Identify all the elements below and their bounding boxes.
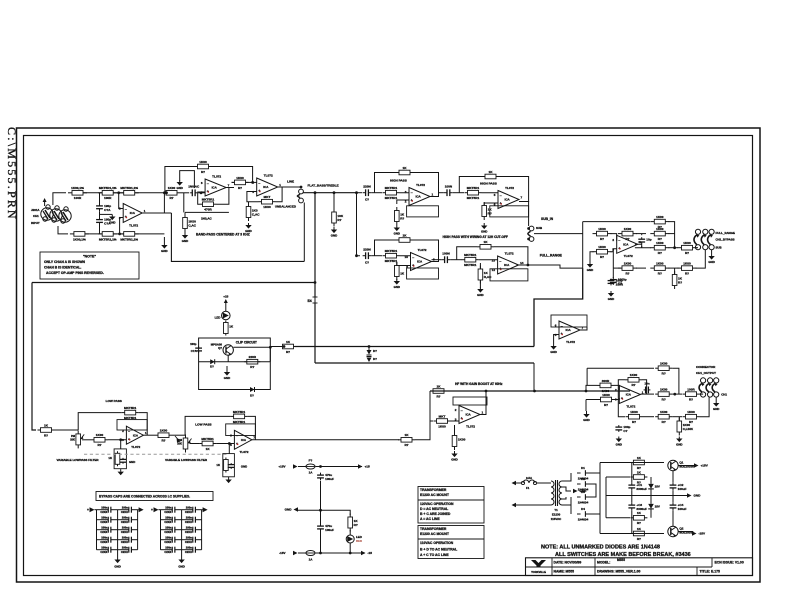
fb box U204A [407, 268, 439, 279]
svg-text:15V: 15V [655, 505, 660, 509]
svg-text:1N0,AC: 1N0,AC [201, 217, 213, 221]
ground input chain [161, 237, 167, 253]
wire z col2 [650, 493, 652, 501]
resistor R333 [655, 388, 672, 402]
svg-text:HIGH PASS: HIGH PASS [390, 178, 407, 182]
svg-text:ICA: ICA [130, 211, 136, 215]
svg-text:C2XX: C2XX [185, 550, 192, 554]
svg-text:1K00: 1K00 [598, 227, 606, 231]
svg-text:CH1: CH1 [721, 393, 727, 397]
svg-text:100n: 100n [186, 516, 192, 520]
junction bus 486 [485, 390, 488, 393]
wire mains3 [516, 504, 548, 506]
wire r236 dn [479, 281, 481, 289]
svg-text:300R: 300R [602, 379, 610, 383]
wire opamp2 lower fb [198, 192, 205, 204]
resistor R312 [91, 433, 108, 447]
wire row1 output right [519, 202, 529, 227]
fuse F2 [306, 459, 315, 475]
wire bridge join [589, 484, 596, 497]
label GND lp2 [241, 465, 247, 469]
wire bridge out- [589, 514, 600, 534]
ground buffer [550, 344, 556, 354]
svg-text:R?: R? [354, 523, 358, 527]
svg-text:CH1: CH1 [33, 214, 39, 218]
svg-text:+15: +15 [365, 465, 371, 469]
svg-text:C2XX: C2XX [185, 530, 192, 534]
capacitor C3 3300uF [628, 503, 647, 512]
wire opamp3 fb2 [276, 187, 283, 202]
note: bypass caps box [96, 492, 213, 501]
wire main bus y391 [430, 390, 630, 392]
wire lp1 fb out [139, 413, 148, 436]
transistor Q1 MJE15030 [668, 460, 694, 470]
wire lp1 fb [78, 413, 122, 430]
svg-text:100uF: 100uF [325, 477, 334, 481]
svg-text:ICA: ICA [504, 263, 510, 267]
svg-text:10p: 10p [646, 237, 651, 241]
svg-text:1K00: 1K00 [687, 410, 695, 414]
svg-text:1K00: 1K00 [656, 262, 664, 266]
svg-text:F?: F? [309, 459, 313, 463]
diode D304 [210, 359, 215, 368]
wire clip box drop [269, 347, 271, 361]
svg-text:C,AC: C,AC [188, 223, 196, 227]
wire row1 fb out [413, 173, 439, 197]
wire -15 rail [298, 552, 306, 554]
svg-text:TL072: TL072 [626, 404, 635, 408]
wire input top [53, 193, 66, 205]
svg-text:GND: GND [694, 494, 702, 498]
lp2 inner fb box [226, 424, 256, 436]
svg-text:C?A: C?A [104, 208, 111, 212]
wire opamp3 out LINE [278, 186, 301, 188]
svg-text:10K: 10K [70, 438, 75, 442]
wire c210-opamp2 [198, 192, 205, 194]
svg-text:C2XX: C2XX [164, 510, 171, 514]
wire row2 fb loop [375, 240, 397, 256]
op-amp U202A TL072 [252, 174, 281, 197]
wire top row a [83, 192, 103, 194]
wire q1 out [679, 465, 696, 467]
resistor R303 [280, 340, 296, 354]
resistor R206 bottom [120, 232, 139, 242]
svg-text:1N4004: 1N4004 [578, 500, 589, 504]
svg-text:220N: 220N [363, 185, 371, 189]
resistor R317 [398, 433, 415, 447]
wire r211-c210 [180, 192, 189, 194]
resistor R353 1K [630, 527, 647, 541]
printout filename C:\M555.PRN [5, 127, 19, 221]
wire lp2 fb out [248, 416, 256, 439]
svg-text:YORKVILLE: YORKVILLE [531, 570, 546, 574]
svg-text:GND: GND [109, 221, 115, 225]
svg-text:GND: GND [394, 285, 400, 289]
resistor R244 1K00 in [593, 245, 612, 259]
svg-text:100n: 100n [101, 516, 107, 520]
resistor R225 fb 1K [482, 170, 499, 179]
switch S2b [706, 378, 713, 397]
svg-text:TL072: TL072 [624, 254, 633, 258]
resistor R340 [348, 514, 358, 532]
svg-text:−: − [618, 239, 620, 243]
wire byp b [669, 267, 679, 269]
svg-text:C,LINK: C,LINK [683, 427, 694, 431]
resistor R248 [650, 262, 669, 276]
wire line down [303, 203, 305, 262]
resistor R243 1K00 [650, 227, 669, 241]
svg-text:−: − [461, 409, 463, 413]
svg-text:100n: 100n [186, 506, 192, 510]
fb box U203A [407, 206, 439, 217]
svg-text:GND: GND [285, 508, 293, 512]
wire byp to sw [696, 250, 706, 268]
svg-text:LOW PASS: LOW PASS [195, 422, 211, 426]
resistor R223 1K [395, 207, 405, 225]
wire c340 down [320, 481, 322, 510]
junction -15 [319, 552, 322, 555]
wire lp2 rc top [228, 444, 230, 454]
svg-text:ICA: ICA [626, 393, 632, 397]
svg-text:Q?: Q? [218, 346, 222, 350]
svg-text:100n: 100n [122, 536, 128, 540]
wire c240 up [641, 234, 643, 236]
wire subin right [534, 233, 560, 235]
page border outer [17, 128, 761, 582]
wire clip bus up right [534, 268, 583, 346]
svg-text:C2XX: C2XX [164, 530, 171, 534]
wire lp2 fb [185, 416, 231, 435]
junction lp1 in [119, 438, 122, 441]
capacitor C240 10p [638, 237, 651, 244]
transistor Q2 MJE15031 [668, 526, 694, 536]
label PM10K 1 [70, 434, 76, 442]
ground c302 [608, 291, 614, 301]
svg-text:GND: GND [676, 443, 682, 447]
wire c220-r [372, 192, 383, 194]
wire mains2 [537, 482, 549, 484]
svg-text:D3: D3 [581, 490, 585, 494]
switch S2a [699, 378, 706, 397]
wire c col3 [672, 471, 674, 483]
wire g out [641, 393, 655, 395]
wire pin3 riser [120, 218, 124, 234]
svg-text:−: − [621, 389, 623, 393]
wire mid rail [606, 495, 689, 497]
label MPSA06 [211, 342, 223, 350]
svg-text:HF WITH GAIN BOOST AT 60Hz: HF WITH GAIN BOOST AT 60Hz [455, 382, 503, 386]
wire q2 out [679, 531, 694, 533]
wire byp a [636, 267, 646, 269]
wire to sw mid [696, 247, 699, 249]
junction clip [283, 345, 286, 348]
resistor R335 [655, 362, 672, 376]
junction +15 cap [319, 465, 322, 468]
svg-text:SUB: SUB [536, 226, 542, 230]
svg-text:100uF: 100uF [678, 507, 687, 511]
svg-text:GND: GND [176, 186, 182, 190]
lp1 RC box [114, 449, 126, 469]
resistor R241 1K00 [593, 227, 612, 241]
resistor R338 [683, 410, 700, 424]
wire byp left link [613, 267, 620, 269]
svg-text:100n: 100n [186, 536, 192, 540]
wire g to sw [700, 393, 704, 395]
wire row2s2 fb loop [457, 247, 477, 260]
wire clip out pre [233, 346, 270, 348]
ground c331 [616, 437, 622, 447]
svg-text:D4: D4 [581, 507, 585, 511]
bandpass caption [196, 233, 250, 237]
wire LF tap vertical [314, 193, 316, 297]
svg-text:C,AC: C,AC [252, 212, 260, 216]
svg-text:R?: R? [662, 398, 666, 402]
wire sw2 gnd [715, 397, 717, 401]
svg-text:D?: D? [373, 357, 377, 361]
wire sum gnd lead [590, 252, 594, 262]
svg-text:15V: 15V [655, 485, 660, 489]
resistor R215 fb [259, 195, 276, 209]
svg-text:1K00: 1K00 [683, 262, 691, 266]
wire bot row a [85, 233, 103, 235]
svg-text:100uF: 100uF [325, 528, 334, 532]
resistor R316 shunt [224, 458, 229, 473]
svg-text:−: − [236, 434, 238, 438]
resistor R211 [163, 186, 180, 200]
wire bottom to gnd [135, 233, 165, 235]
label CONNECTOR [696, 365, 716, 369]
resistor R224 [465, 186, 482, 200]
junction top chain [117, 191, 120, 194]
svg-text:R?: R? [250, 365, 254, 369]
bypass capacitor bank 1 [87, 506, 144, 569]
svg-text:E1230: E1230 [552, 513, 561, 517]
ground r339 [676, 437, 682, 447]
wire sw gnd [711, 250, 713, 254]
svg-text:MODEL:: MODEL: [597, 561, 610, 565]
op-amp U203A [405, 183, 434, 206]
svg-text:C?: C? [365, 260, 369, 264]
ground switches 2 [713, 401, 719, 411]
svg-text:GND: GND [161, 249, 167, 253]
svg-text:C2XX: C2XX [164, 520, 171, 524]
wire E4 down [314, 303, 316, 363]
svg-text:D?: D? [250, 394, 254, 398]
op-amp U206A buffer [555, 321, 584, 344]
wire xlr bottom [58, 226, 68, 234]
svg-text:R?: R? [637, 537, 641, 541]
capacitor C4 100uF [670, 503, 687, 512]
wire r223 up [397, 200, 409, 204]
diode Z2 [648, 501, 660, 513]
wire bypass row [612, 249, 614, 268]
svg-text:+: + [87, 508, 89, 512]
svg-text:10n: 10n [644, 382, 649, 386]
svg-text:D2: D2 [581, 477, 585, 481]
wire g in2 [586, 399, 598, 401]
svg-text:M555: M555 [617, 558, 625, 562]
svg-text:MKT5R1,1%: MKT5R1,1% [99, 186, 117, 190]
wire z col [650, 477, 652, 481]
ground lf [451, 451, 457, 462]
svg-text:100n: 100n [122, 506, 128, 510]
wire sec bot [562, 505, 571, 514]
wire sec mid2 [562, 497, 566, 499]
resistor R205 bottom [98, 232, 117, 242]
wire c240 dn [641, 246, 643, 248]
wire q301 emitter [227, 355, 229, 362]
svg-text:1K: 1K [216, 463, 220, 467]
svg-text:MKT: MKT [264, 195, 271, 199]
gang dashed line [84, 453, 228, 455]
svg-text:110VAC OPERATION: 110VAC OPERATION [420, 541, 454, 545]
capacitor C314 [120, 458, 127, 464]
fb box U203B [490, 206, 529, 217]
wire r322 [454, 425, 456, 436]
resistor R231 [383, 249, 400, 263]
junction r211 in [165, 191, 168, 194]
junction clip diode1 [368, 345, 371, 348]
wire reg row3 [606, 517, 630, 519]
ground R226 [481, 223, 487, 234]
svg-text:ICA: ICA [505, 198, 511, 202]
svg-text:220R: 220R [249, 355, 257, 359]
svg-text:220N: 220N [363, 248, 371, 252]
resistor R203 top [120, 186, 139, 195]
svg-text:R?: R? [637, 466, 641, 470]
svg-text:1K00: 1K00 [438, 424, 446, 428]
resistor R310 [38, 423, 55, 437]
svg-text:C2XX: C2XX [121, 530, 128, 534]
wire c231-r234 [451, 259, 463, 261]
svg-text:C2XX: C2XX [185, 520, 192, 524]
svg-text:100N: 100N [442, 252, 450, 256]
junction bus 586 [585, 390, 588, 393]
svg-text:100R: 100R [687, 388, 695, 392]
svg-text:−: − [412, 256, 414, 260]
wire g top loop b [672, 368, 679, 394]
diode Z1 [648, 481, 660, 493]
svg-text:LINE: LINE [287, 180, 294, 184]
diode D2 1N4004 [577, 477, 589, 491]
svg-text:1K00: 1K00 [660, 388, 668, 392]
note: diodes/switches [541, 545, 691, 559]
resistor R226 1K [482, 202, 492, 220]
pot2 arrow [175, 436, 181, 443]
svg-text:ICA: ICA [623, 243, 629, 247]
wire c col3b [672, 491, 674, 503]
svg-text:1K00: 1K00 [660, 410, 668, 414]
svg-text:1K00: 1K00 [630, 373, 638, 377]
wire r339 up [678, 417, 680, 421]
svg-text:MKT5R1,1%: MKT5R1,1% [120, 186, 138, 190]
gnd arrow xfmr [573, 489, 587, 493]
power +15V rail arrow-in [293, 464, 298, 468]
resistor R330 [597, 379, 614, 393]
label hp wiring caption [443, 235, 508, 239]
wire LF horizontal [32, 282, 315, 284]
label SUB [536, 226, 542, 230]
svg-text:T1: T1 [554, 508, 558, 512]
wire r224-opamp [482, 191, 499, 194]
wire pot-r316 [190, 443, 200, 445]
ground sum [587, 262, 593, 272]
fuse F1 [521, 476, 536, 490]
wire sum c [669, 233, 675, 235]
svg-text:−: − [500, 194, 502, 198]
wire lf in [430, 420, 433, 422]
svg-text:R?: R? [662, 372, 666, 376]
resistor R332 fb [625, 373, 642, 387]
svg-text:GND: GND [583, 418, 589, 422]
svg-text:C2XX: C2XX [100, 510, 107, 514]
svg-text:BYPASS CAPS ARE CONNECTED ACRO: BYPASS CAPS ARE CONNECTED ACROSS I.C SUP… [99, 495, 190, 499]
diode D305 [250, 387, 255, 398]
wire lower loop 2 [185, 211, 229, 213]
resistor R213 1K00 [183, 214, 197, 232]
label FULL_RANGE sw [716, 231, 736, 235]
ground hook [176, 181, 182, 191]
wire r312-opamp [108, 439, 126, 441]
svg-text:R?: R? [632, 420, 636, 424]
label SUB sw [716, 246, 722, 250]
svg-text:MKT5R1: MKT5R1 [233, 420, 246, 424]
wire g low b [643, 416, 655, 418]
capacitor C301 100p [195, 346, 202, 353]
ground R233 [394, 279, 400, 289]
resistor R221 [383, 186, 400, 200]
resistor R337 [655, 410, 672, 424]
label VARIABLE LOWPASS FILTER 2 [165, 458, 208, 462]
wire row2 out [432, 259, 442, 261]
wire reg row2 [606, 476, 630, 478]
switch S1a [694, 229, 701, 250]
svg-text:B + C ARE JOINED: B + C ARE JOINED [420, 512, 451, 516]
ground R216 [245, 223, 251, 233]
svg-text:1K: 1K [108, 456, 112, 460]
wire z col3 [650, 513, 652, 518]
resistor R204 bottom [70, 232, 89, 242]
svg-text:−: − [499, 259, 501, 263]
wire g low c [672, 416, 682, 418]
label 1K lp1 [108, 456, 112, 460]
ground lp1 [118, 469, 124, 475]
svg-text:GND: GND [481, 230, 487, 234]
svg-text:MKT5R1,1%: MKT5R1,1% [99, 237, 117, 241]
label CLIP CIRCUIT [236, 341, 257, 345]
wire row2 bus [357, 193, 361, 256]
label SUB_IN [541, 217, 554, 221]
wire g gnd lead [585, 400, 587, 412]
wire fb to opamp3 [212, 167, 253, 183]
resistor R315 fb [231, 410, 248, 424]
arrow GND out [687, 493, 701, 497]
wire c341 up [320, 510, 322, 525]
resistor R236 1K [478, 266, 492, 284]
arrow +15 out [358, 464, 370, 468]
label HIGH PASS row1 [390, 178, 407, 182]
wire c230-r [372, 255, 383, 257]
svg-text:MKT5R1: MKT5R1 [464, 263, 477, 267]
wire lp1-lp2 [172, 434, 185, 436]
svg-text:GND: GND [708, 260, 714, 264]
svg-text:GND: GND [616, 443, 622, 447]
ground caps [109, 215, 115, 225]
diode D1 1N4004 [577, 466, 589, 480]
svg-text:R?: R? [161, 439, 165, 443]
wire flat bus right [303, 192, 357, 194]
wire g in1b [614, 385, 619, 390]
